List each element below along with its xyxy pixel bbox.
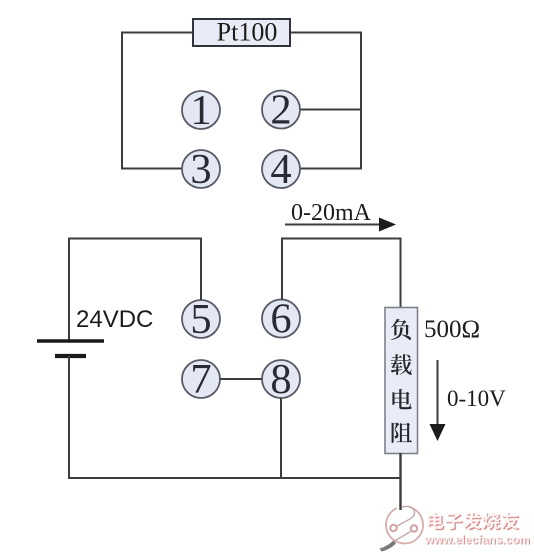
svg-text:3: 3 — [190, 146, 211, 193]
label: CJK fu (load) — [391, 319, 411, 340]
wire: load resistor top riser — [400, 238, 402, 309]
svg-text:www.elecfans.com: www.elecfans.com — [424, 533, 530, 547]
wire: 24VDC positive riser up to top rail — [68, 238, 70, 342]
label: CJK zai — [391, 354, 412, 375]
wire: mA rail over to load resistor — [281, 238, 401, 240]
wire: horizontal into terminal 3 — [121, 168, 182, 170]
arrow: 0-20mA current direction — [285, 224, 381, 226]
svg-text:7: 7 — [190, 356, 211, 403]
terminal 6 — [262, 300, 300, 338]
svg-text:0-20mA: 0-20mA — [291, 200, 372, 226]
terminal 4 — [262, 150, 300, 188]
elecfans watermark logo — [386, 506, 423, 543]
svg-text:Pt100: Pt100 — [217, 18, 278, 47]
wire: terminal 4 to right riser — [300, 168, 362, 170]
wire: lower-left top rail — [68, 238, 202, 240]
wire: load resistor bottom riser — [399, 453, 401, 510]
battery: short negative plate — [55, 354, 86, 358]
RTD sensor box Pt100 — [193, 19, 290, 46]
wire: battery negative down to bottom rail — [68, 356, 70, 479]
terminal 5 — [182, 300, 220, 338]
load resistor box (fu zai dian zu) — [385, 308, 418, 454]
arrow: 0-10V voltage direction (down) — [437, 360, 439, 426]
terminal 2 — [262, 91, 300, 129]
svg-text:4: 4 — [270, 146, 291, 193]
terminal 1 — [182, 91, 220, 129]
svg-text:500Ω: 500Ω — [424, 316, 480, 343]
svg-text:8: 8 — [270, 356, 291, 403]
terminal 7 — [182, 360, 220, 398]
wire: terminal 7 to terminal 8 — [220, 378, 262, 380]
wire: terminal 8 down to bottom rail — [280, 398, 282, 478]
wire: terminal 6 riser up to mA rail — [281, 239, 283, 301]
svg-text:24VDC: 24VDC — [76, 306, 153, 333]
wire: drop into terminal 5 — [200, 238, 202, 301]
logo dark tail stroke — [380, 541, 397, 552]
svg-text:0-10V: 0-10V — [447, 386, 506, 411]
svg-text:2: 2 — [270, 87, 291, 134]
wire: Pt100 box right to top-right corner — [290, 32, 362, 34]
svg-text:1: 1 — [190, 87, 211, 134]
wire: top loop left vertical riser — [121, 32, 123, 170]
label: CJK zu (resistance) — [392, 422, 412, 443]
watermark text: dian zi fa shao you (elecfans) — [429, 513, 445, 530]
terminal 8 — [262, 360, 300, 398]
battery B1 24VDC: long positive plate — [37, 339, 104, 342]
wire: terminal 2 to right riser — [300, 109, 362, 111]
label: CJK dian (electric) — [392, 389, 411, 409]
svg-text:6: 6 — [270, 296, 291, 343]
svg-text:5: 5 — [190, 296, 211, 343]
terminal 3 — [182, 150, 220, 188]
wire: top loop right vertical riser — [360, 32, 362, 170]
wire: bottom rail — [68, 477, 401, 479]
wire: top loop left horizontal from left riser to Pt100 box — [122, 32, 193, 34]
